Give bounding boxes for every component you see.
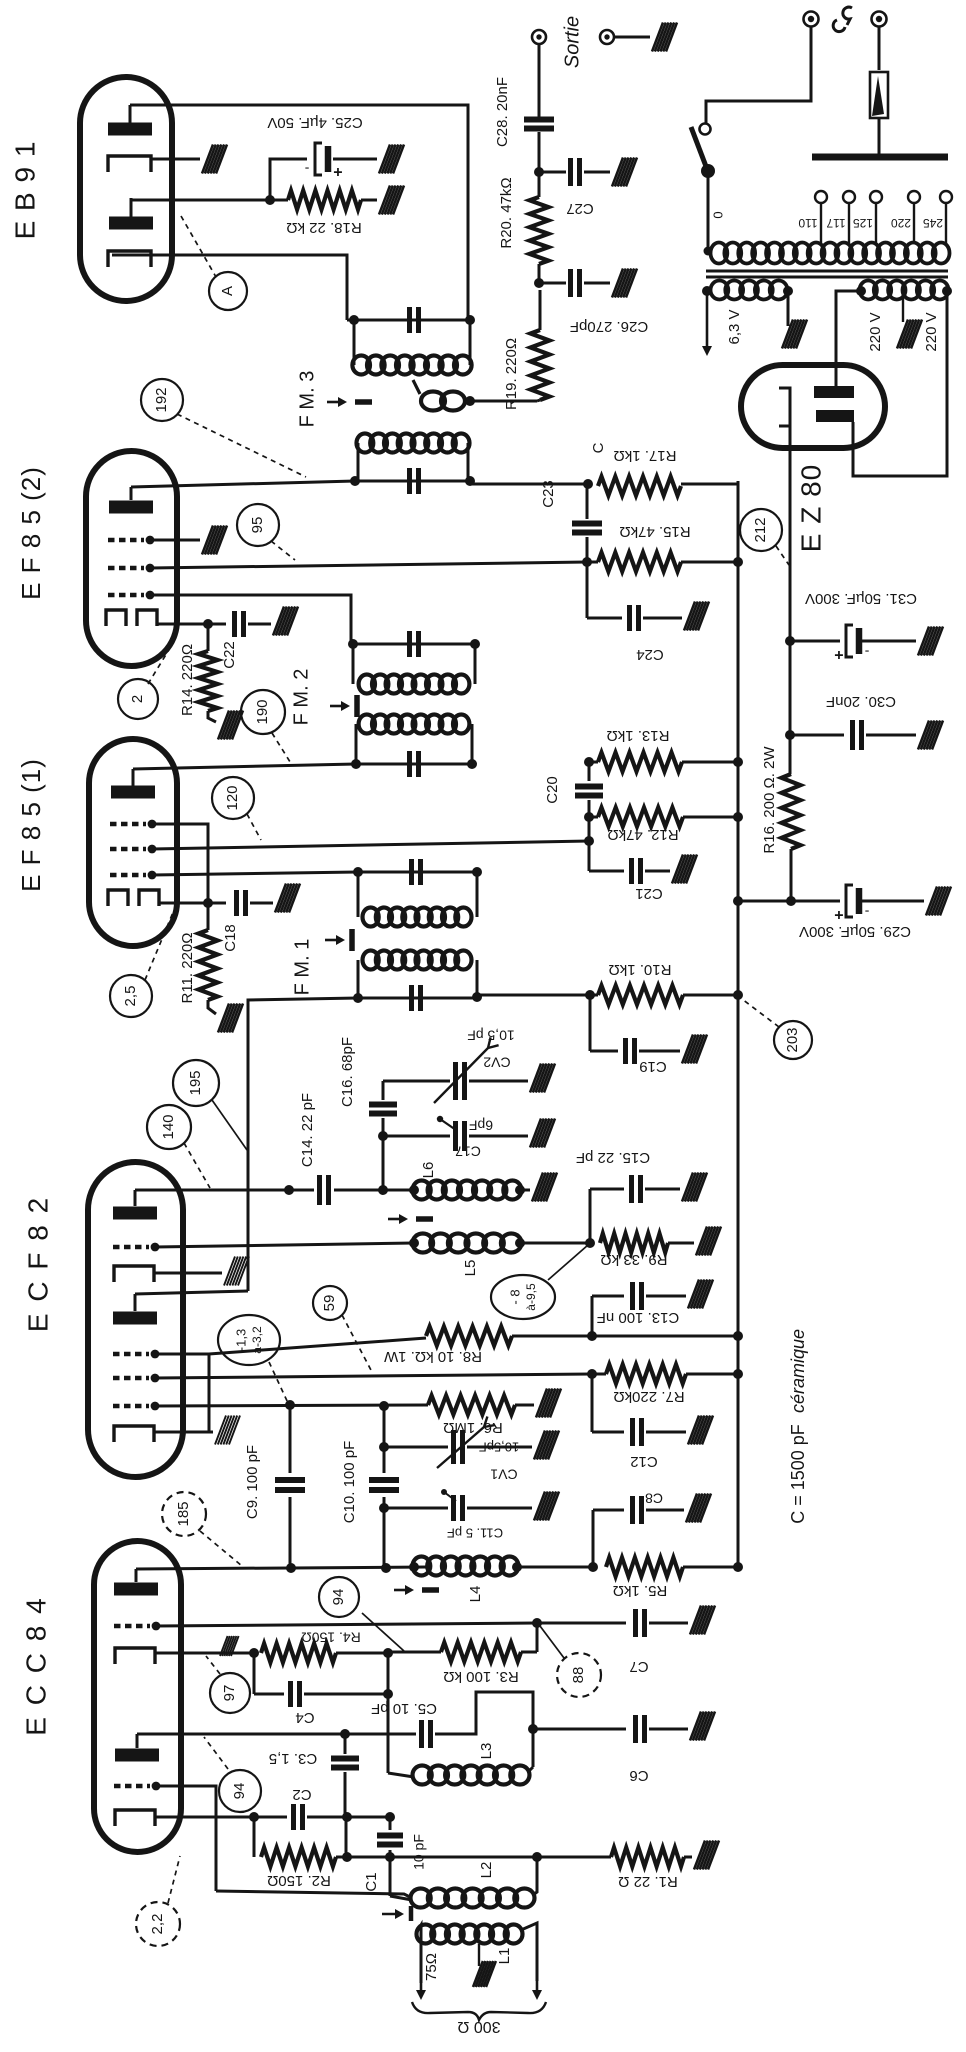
svg-text:10 pF: 10 pF xyxy=(411,1834,427,1870)
EF85(2) plate xyxy=(109,501,153,514)
leader 2,2 xyxy=(168,1856,180,1903)
wire osc grid to L5 xyxy=(155,1243,414,1247)
ECF82 grid row 2 xyxy=(113,1376,149,1380)
wire C13 line to rail xyxy=(592,1335,738,1338)
L1 left lead xyxy=(418,1925,421,1983)
wire g2 to R12 node xyxy=(152,841,589,849)
EZ80 cathode xyxy=(779,388,790,426)
node g2 wire xyxy=(584,836,594,846)
capacitor C25 4uF 50V xyxy=(315,143,322,175)
capacitor C26 270pF xyxy=(568,269,573,297)
FM3 adjust arrow xyxy=(327,401,343,404)
wire B+ rail xyxy=(737,481,740,1567)
svg-text:C27: C27 xyxy=(566,200,594,217)
voltage callout 95 xyxy=(237,504,279,546)
svg-text:C23: C23 xyxy=(540,480,557,508)
ECC84 plate 2 xyxy=(115,1749,159,1762)
inductor L1 xyxy=(417,1925,435,1944)
svg-text:R11. 220Ω: R11. 220Ω xyxy=(179,933,196,1004)
voltage callout 2,5 xyxy=(110,975,152,1017)
transformer core xyxy=(706,270,948,273)
ground R6 xyxy=(536,1389,547,1418)
ground C13 xyxy=(688,1280,699,1309)
svg-text:CV2: CV2 xyxy=(483,1054,510,1070)
ECC84 plate 1 xyxy=(114,1583,158,1596)
svg-text:2: 2 xyxy=(129,695,146,703)
mains plug symbol xyxy=(843,7,852,25)
ground R1 xyxy=(694,1841,705,1870)
inductor 6.3V winding xyxy=(711,281,729,300)
svg-text:C6: C6 xyxy=(629,1767,648,1784)
wire g3 tie xyxy=(152,824,208,903)
svg-text:C25. 4µF. 50V: C25. 4µF. 50V xyxy=(267,114,362,131)
voltage callout 2,2 xyxy=(136,1902,180,1946)
ECF82 triode cathode xyxy=(114,1426,154,1442)
capacitor C5 10pF xyxy=(419,1720,424,1748)
ground R9 xyxy=(696,1227,707,1256)
inductor L2 xyxy=(411,1889,431,1908)
voltage callout 2 xyxy=(118,679,158,719)
resistor R4 150 xyxy=(261,1644,336,1663)
svg-text:10,5pF: 10,5pF xyxy=(479,1440,520,1455)
wire L2 right leg xyxy=(533,1857,537,1895)
svg-text:10,5 pF: 10,5 pF xyxy=(467,1027,514,1043)
wire anode2 line xyxy=(137,1733,416,1736)
resistor R16 200 2W xyxy=(789,735,792,774)
wire grid3 to R6 xyxy=(155,1405,428,1406)
leader 95 xyxy=(271,541,295,560)
capacitor C19 branch xyxy=(589,995,592,1051)
inductor FM3 tertiary coupling coil xyxy=(421,392,445,411)
node C27 xyxy=(534,167,544,177)
220V center tap to ground xyxy=(902,298,904,322)
svg-text:C29. 50µF. 300V: C29. 50µF. 300V xyxy=(799,923,911,940)
inductor L4 xyxy=(413,1557,431,1576)
capacitor CV2 xyxy=(453,1062,458,1100)
voltage callout 140 xyxy=(147,1105,191,1149)
svg-text:C20: C20 xyxy=(544,776,561,804)
leader 140 xyxy=(184,1143,210,1188)
voltage callout 59 xyxy=(313,1286,347,1320)
capacitor C21 branch xyxy=(589,870,624,873)
wire cathode2 line xyxy=(155,1816,287,1819)
svg-text:R5. 1kΩ: R5. 1kΩ xyxy=(613,1582,668,1599)
capacitor C29 50uF 300V xyxy=(846,885,853,917)
L1 right lead xyxy=(521,1923,537,1981)
leader 195 xyxy=(212,1100,247,1150)
trim mark C11 xyxy=(441,1489,447,1495)
leader 59 xyxy=(342,1315,372,1372)
capacitor C22 xyxy=(208,623,226,626)
EB91 diode plate 2 xyxy=(109,217,153,230)
capacitor C11 5pF xyxy=(451,1495,456,1521)
inductor FM3 secondary coil xyxy=(352,356,370,375)
leader 192 xyxy=(177,414,306,477)
wire C17 line xyxy=(383,1135,450,1138)
ground C26 xyxy=(612,269,623,298)
svg-text:C30. 20nF: C30. 20nF xyxy=(826,693,896,710)
wire cathode to node xyxy=(157,623,208,626)
ground C18 xyxy=(275,884,286,913)
capacitor C30 20nF xyxy=(850,720,855,750)
FM3 secondary tank wire xyxy=(347,319,470,322)
resistor R20 47k xyxy=(530,197,549,264)
svg-text:94: 94 xyxy=(231,1783,248,1800)
svg-text:C7: C7 xyxy=(629,1658,648,1675)
svg-text:97: 97 xyxy=(221,1685,238,1702)
inductor FM2 secondary coil xyxy=(359,675,375,694)
svg-text:C9. 100 pF: C9. 100 pF xyxy=(244,1445,261,1519)
svg-text:2,2: 2,2 xyxy=(149,1914,166,1935)
FM2 adjust arrow xyxy=(330,705,346,708)
capacitor C28 20nF xyxy=(538,132,541,172)
inductor FM2 primary coil xyxy=(359,715,375,734)
leader 190 xyxy=(272,733,292,765)
L2 left leg xyxy=(389,1857,392,1896)
resistor R13 1k xyxy=(598,753,682,772)
svg-text:C15. 22 pF: C15. 22 pF xyxy=(576,1149,650,1166)
resistor R6 1M xyxy=(428,1396,515,1415)
capacitor C13 100nF branch xyxy=(591,1296,594,1336)
ground C15 xyxy=(682,1173,693,1202)
voltage callout 195 xyxy=(173,1060,219,1106)
wire L5 to R9 node xyxy=(520,1242,590,1245)
svg-text:F M. 2: F M. 2 xyxy=(290,669,312,726)
wire EB91 plate1 to FM3 secondary top xyxy=(130,105,468,320)
ground g3 xyxy=(202,526,213,555)
FM3 secondary side legs xyxy=(353,320,356,365)
EB91 cathode 2 xyxy=(108,251,151,267)
leader 94 upper xyxy=(362,1613,404,1651)
EF85(1) plate xyxy=(111,786,155,799)
wire tertiary to R19 xyxy=(468,400,537,403)
wire C26 to ground xyxy=(584,282,610,285)
svg-text:C14. 22 pF: C14. 22 pF xyxy=(299,1093,316,1167)
svg-text:C22: C22 xyxy=(221,641,238,669)
inductor FM3 primary coil xyxy=(357,434,374,453)
wire EB91 cathode1 to ground xyxy=(151,158,200,161)
svg-text:212: 212 xyxy=(752,517,769,542)
EZ80 plate 2 xyxy=(816,410,854,422)
EB91 cathode 1 xyxy=(108,156,151,172)
svg-text:L4: L4 xyxy=(467,1586,484,1603)
wire 6.3V right to ground xyxy=(787,291,790,326)
leader -1,3 xyxy=(269,1362,288,1403)
capacitor C4 xyxy=(253,1653,256,1694)
voltage callout -1,3 a -3,2 xyxy=(218,1315,280,1365)
wire triode cathode to ground xyxy=(154,1431,213,1434)
svg-text:L1: L1 xyxy=(496,1948,513,1965)
resistor R11 220 xyxy=(199,930,218,1000)
leader 97 xyxy=(206,1656,220,1674)
ECF82 grid row 3 xyxy=(113,1404,149,1408)
FM1 primary capacitor xyxy=(409,985,414,1011)
wire node to C26 xyxy=(539,282,566,285)
capacitor C1 10pF xyxy=(389,1817,392,1830)
ground 6.3V xyxy=(782,320,793,349)
wire grid2 rail to L2 xyxy=(216,1891,412,1898)
L2 adjust arrow xyxy=(382,1913,400,1915)
capacitor C17 6pF xyxy=(453,1121,458,1151)
wire 220V right to EZ80 plate2 xyxy=(853,291,947,476)
voltage callout 94 lower xyxy=(219,1770,261,1812)
svg-text:140: 140 xyxy=(160,1114,177,1139)
FM2 secondary capacitor xyxy=(407,631,412,657)
svg-text:220 V: 220 V xyxy=(867,312,884,351)
svg-text:110: 110 xyxy=(798,216,817,230)
wire fuse to bus xyxy=(878,118,881,155)
svg-text:C1: C1 xyxy=(363,1872,380,1891)
wire anode to FM2 primary xyxy=(133,764,356,769)
resistor R7 220k xyxy=(606,1365,686,1384)
capacitor C14 22pF xyxy=(317,1175,322,1205)
svg-text:117: 117 xyxy=(826,216,845,230)
svg-text:190: 190 xyxy=(254,699,271,724)
L6 adjust arrow xyxy=(388,1218,404,1221)
EF85(1) grid g1 xyxy=(110,873,146,877)
inductor L6 xyxy=(413,1181,431,1200)
resistor R3 100k xyxy=(536,1623,539,1652)
leader 2 xyxy=(148,643,173,684)
svg-text:195: 195 xyxy=(187,1070,204,1095)
mains terminal 1 xyxy=(804,12,819,27)
FM1 secondary capacitor xyxy=(409,859,414,885)
ground pentode cathode xyxy=(224,1257,235,1286)
svg-text:-: - xyxy=(864,904,869,920)
svg-text:R17. 1kΩ: R17. 1kΩ xyxy=(614,447,677,464)
svg-text:C12: C12 xyxy=(630,1453,658,1470)
inductor L3 xyxy=(413,1766,432,1785)
ECF82 pentode cathode xyxy=(114,1266,154,1282)
FM1 adjust arrow xyxy=(325,939,341,942)
svg-text:à-9,5: à-9,5 xyxy=(524,1283,538,1311)
svg-text:C24: C24 xyxy=(636,646,664,663)
svg-text:C18: C18 xyxy=(222,924,239,952)
wire C27 to ground xyxy=(584,171,610,174)
node L6 line xyxy=(378,1185,388,1195)
wire C29 to ground xyxy=(861,900,924,903)
wire CV2 line xyxy=(383,1080,450,1083)
ECF82 pentode plate xyxy=(113,1207,157,1220)
inductor FM1 secondary coil xyxy=(363,908,379,927)
switch pivot xyxy=(701,164,715,178)
svg-text:R4. 150Ω: R4. 150Ω xyxy=(301,1629,361,1645)
svg-text:R8. 10 kΩ. 1W: R8. 10 kΩ. 1W xyxy=(383,1348,482,1365)
switch lever xyxy=(691,127,707,169)
FM1 primary tank wire xyxy=(358,997,477,1000)
svg-text:R15. 47kΩ: R15. 47kΩ xyxy=(619,523,690,540)
node R7 xyxy=(587,1369,597,1379)
svg-text:L2: L2 xyxy=(478,1862,495,1879)
resistor R12 47k xyxy=(598,808,683,827)
wire 6.3V to heaters arrow xyxy=(706,291,709,352)
FM2 primary tank wire xyxy=(356,763,472,766)
svg-text:R14. 220Ω: R14. 220Ω xyxy=(179,644,196,716)
resistor R5 1k xyxy=(606,1558,683,1577)
resistor R14 220 xyxy=(199,651,218,711)
vert tie grid-cathode xyxy=(208,1354,211,1432)
wire L6 to ground xyxy=(520,1189,530,1192)
wire C3 bottom tie xyxy=(345,1817,348,1857)
svg-text:C10. 100 pF: C10. 100 pF xyxy=(341,1441,358,1524)
FM1 secondary tank wire xyxy=(358,871,477,874)
ground C17 xyxy=(530,1119,541,1148)
EF85(2) grid g3 xyxy=(108,538,144,542)
resistor R9 33k xyxy=(600,1234,668,1253)
EB91 diode plate 1 xyxy=(108,123,152,136)
node C30 xyxy=(785,730,795,740)
ground C30 xyxy=(918,721,929,750)
capacitor C8 branch xyxy=(592,1510,595,1567)
wire node to C25 xyxy=(270,159,307,200)
wire grid2 tie xyxy=(156,1786,216,1891)
inductor L5 xyxy=(413,1234,434,1253)
capacitor C23 xyxy=(586,484,589,519)
svg-text:-: - xyxy=(304,161,309,177)
wire line A to R1 xyxy=(347,1856,611,1859)
svg-text:C = 1500 pF: C = 1500 pF xyxy=(788,1424,808,1524)
tube ECC84 envelope xyxy=(94,1541,181,1852)
capacitor C10 100pF xyxy=(383,1406,386,1473)
tube EF85(2) envelope xyxy=(86,451,177,666)
svg-text:C11. 5 pF: C11. 5 pF xyxy=(447,1526,503,1541)
svg-text:CV1: CV1 xyxy=(490,1466,517,1482)
wire C11 to ground xyxy=(467,1507,532,1510)
FM3 secondary capacitor xyxy=(407,307,412,333)
svg-text:L3: L3 xyxy=(478,1743,495,1760)
ground R11 xyxy=(208,1000,216,1014)
svg-text:+: + xyxy=(834,906,843,923)
capacitor C20 xyxy=(588,762,591,781)
capacitor C18 xyxy=(208,902,226,905)
trim arrow CV1 xyxy=(437,1427,484,1468)
EF85(1) heater-cathode brackets xyxy=(108,890,128,906)
svg-text:-: - xyxy=(864,644,869,660)
svg-text:R18. 22 kΩ: R18. 22 kΩ xyxy=(286,219,361,236)
wire cathode1 to R4 xyxy=(155,1652,254,1655)
svg-text:+: + xyxy=(333,163,342,180)
ground C31 xyxy=(918,627,929,656)
svg-text:R19. 220Ω: R19. 220Ω xyxy=(503,338,520,410)
EF85(1) grid g2 xyxy=(110,847,146,851)
node A callout xyxy=(209,272,247,310)
tube EB91 envelope xyxy=(80,77,172,301)
trim arrow C17 xyxy=(437,1116,443,1122)
node C17 xyxy=(378,1131,388,1141)
svg-text:C19: C19 xyxy=(639,1058,667,1075)
svg-text:0: 0 xyxy=(710,211,725,218)
svg-text:95: 95 xyxy=(249,517,266,534)
svg-text:E B 9 1: E B 9 1 xyxy=(9,141,40,240)
svg-text:- 8: - 8 xyxy=(507,1289,522,1304)
svg-text:+: + xyxy=(834,646,843,663)
FM2 secondary side legs xyxy=(352,644,355,684)
ground C29 xyxy=(926,887,937,916)
resistor R1 22 xyxy=(611,1848,684,1867)
resistor R18 22k xyxy=(288,191,361,210)
svg-text:C31. 50µF. 300V: C31. 50µF. 300V xyxy=(805,590,917,607)
svg-text:E F 8 5 (1): E F 8 5 (1) xyxy=(16,758,46,892)
svg-text:C28. 20nF: C28. 20nF xyxy=(494,77,511,147)
wire cathode to node xyxy=(159,902,208,905)
svg-text:-1,3: -1,3 xyxy=(233,1329,248,1351)
svg-text:88: 88 xyxy=(570,1667,587,1684)
ground C7 xyxy=(690,1606,701,1635)
svg-text:125: 125 xyxy=(853,216,873,230)
wire pentode cathode to ground xyxy=(154,1272,222,1275)
wire grid1 line xyxy=(156,1623,537,1626)
wire g3 to ground xyxy=(150,539,200,542)
wire L4 to R5 xyxy=(517,1566,593,1569)
wire terminal2 to fuse xyxy=(878,27,881,70)
svg-text:C4: C4 xyxy=(295,1709,314,1726)
ECC84 grid 2 xyxy=(114,1784,150,1788)
wire EB91 cathode2 to FM3 secondary xyxy=(112,255,347,320)
capacitor C15 22pF branch xyxy=(589,1189,592,1243)
svg-text:R10. 1kΩ: R10. 1kΩ xyxy=(609,961,672,978)
svg-text:59: 59 xyxy=(321,1295,338,1312)
leader 203 xyxy=(742,999,779,1027)
svg-text:R3. 100 kΩ: R3. 100 kΩ xyxy=(443,1668,518,1685)
wire anode to FM3 primary xyxy=(131,481,355,487)
FM1 primary side legs xyxy=(357,960,360,998)
svg-text:203: 203 xyxy=(784,1027,801,1052)
ground C8 xyxy=(686,1494,697,1523)
svg-text:75Ω: 75Ω xyxy=(423,1953,440,1981)
svg-text:120: 120 xyxy=(224,785,241,810)
voltage callout 212 xyxy=(740,509,782,551)
capacitor C16 68pF xyxy=(382,1081,385,1100)
leader 120 xyxy=(247,814,261,840)
wire pentode anode line xyxy=(135,1189,314,1192)
ground R14 xyxy=(208,711,216,722)
FM3 primary side legs xyxy=(357,443,360,481)
svg-text:R20. 47kΩ: R20. 47kΩ xyxy=(498,177,515,248)
wire C25 to ground xyxy=(333,158,377,161)
capacitor CV1 xyxy=(451,1430,456,1464)
wire grid2 to R7 node xyxy=(155,1374,592,1378)
tube ECF82 envelope xyxy=(88,1162,183,1477)
voltage callout 120 xyxy=(212,777,254,819)
ground C11 xyxy=(534,1492,545,1521)
svg-text:C16. 68pF: C16. 68pF xyxy=(339,1037,356,1107)
svg-text:185: 185 xyxy=(175,1501,192,1526)
ECF82 triode grid xyxy=(113,1352,149,1356)
ground C27 xyxy=(612,158,623,187)
resistor R17 1k xyxy=(470,483,588,486)
wire EZ80 cathode down xyxy=(789,426,792,641)
wire FM1 primary to mixer anode xyxy=(248,998,358,1291)
mains bus bar xyxy=(812,154,948,161)
wire g2 to R15 node xyxy=(150,562,587,568)
node R10 xyxy=(585,990,595,1000)
wire to C30 xyxy=(790,734,844,737)
ground EB91 cathode1 xyxy=(202,145,213,174)
wire EB91 plate2 to detector node xyxy=(131,199,270,202)
leader 2,5 xyxy=(145,910,174,980)
ECC84 grid 1 xyxy=(114,1624,150,1628)
svg-text:L5: L5 xyxy=(462,1260,479,1277)
resistor R19 220 xyxy=(531,330,550,400)
svg-text:6pF: 6pF xyxy=(469,1117,493,1133)
node R12 xyxy=(584,812,594,822)
svg-text:C17: C17 xyxy=(455,1143,481,1159)
leader 94 lower xyxy=(204,1737,228,1769)
voltage callout 97 xyxy=(210,1673,250,1713)
voltage callout 185 xyxy=(162,1492,206,1536)
resistor R10 1k xyxy=(598,986,683,1005)
inductor FM1 primary coil xyxy=(363,951,379,970)
